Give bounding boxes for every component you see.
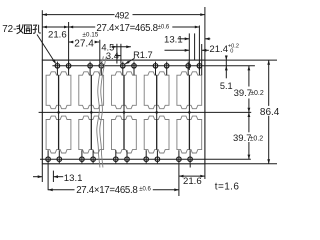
svg-text:27.4×17=465.8: 27.4×17=465.8 [76, 185, 137, 196]
oblong hole top row group 4.2 [164, 64, 169, 69]
dim 492 extension line right [204, 7, 206, 60]
break line 1 [97, 56, 104, 167]
cutout pair 2 top row [79, 72, 104, 109]
svg-text:21.6: 21.6 [183, 176, 202, 187]
oblong hole bottom row group 4.2 [155, 157, 160, 162]
extension line first hole pair [68, 22, 70, 70]
cutout pair 5 bottom row divider line [188, 120, 190, 150]
dim 5.1 [225, 55, 227, 78]
oblong hole top row group 4.1 [153, 64, 158, 69]
svg-text:72-: 72- [2, 24, 16, 35]
oblong hole bottom row group 5.2 [188, 157, 193, 162]
divider continuation group 3 [123, 105, 125, 119]
cutout pair 3 top row divider line [123, 75, 125, 105]
dim 21.6 bottom [179, 175, 205, 177]
cutout pair 3 bottom row divider line [123, 120, 125, 150]
dim 39.7 upper [248, 66, 250, 87]
extension line cutout right edge [201, 44, 203, 75]
panel left edge extension down [41, 164, 43, 182]
dim 492 extension line left [41, 10, 43, 60]
dim 21.6 top [42, 26, 68, 28]
stub extension hole 36 [189, 163, 191, 167]
bottom hole row centerline [40, 158, 251, 160]
svg-text:21.4: 21.4 [209, 44, 228, 55]
panel outline (mounting plate) [42, 60, 205, 164]
bottom edge extension to the right [205, 163, 277, 165]
extension line hole 17 [188, 33, 190, 70]
dim 492 [42, 14, 114, 16]
divider continuation group 5 [188, 105, 190, 119]
top hole row centerline [52, 65, 255, 67]
cutout pair 4 top row divider line [156, 75, 158, 105]
middle hole dot group 2 [90, 111, 93, 114]
divider continuation group 1 [58, 105, 60, 119]
oblong hole bottom row group 5.1 [177, 157, 182, 162]
svg-text:R1.7: R1.7 [133, 50, 153, 60]
svg-text:492: 492 [115, 11, 129, 21]
oblong hole bottom row group 2.1 [80, 157, 85, 162]
dim 39.7 lower [248, 112, 250, 132]
oblong hole top row group 5.2 [197, 64, 202, 69]
middle hole dot group 4 [155, 111, 158, 114]
oblong hole bottom row group 1.2 [57, 157, 62, 162]
oblong hole top row group 5.1 [186, 64, 191, 69]
svg-text:±0.2: ±0.2 [250, 90, 264, 97]
dim 27.4x17=465.8 top [69, 26, 96, 28]
cutout pair 4 bottom row divider line [156, 120, 158, 150]
cutout pair 1 bottom row divider line [58, 120, 60, 150]
cutout pair 1 top row divider line [58, 75, 60, 105]
top edge extension to the right [205, 59, 277, 61]
break line 2 [100, 56, 107, 167]
svg-text:27.4×17=465.8: 27.4×17=465.8 [96, 23, 157, 34]
oblong hole top row group 1.1 [55, 64, 60, 69]
svg-text:0: 0 [230, 49, 233, 55]
cutout pair 4 top row [144, 72, 169, 109]
panel right edge extension down [204, 164, 206, 179]
oblong hole bottom row group 3.2 [125, 157, 130, 162]
svg-text:13.1: 13.1 [64, 173, 83, 184]
cutout pair 2 bottom row [79, 116, 104, 153]
svg-text:27.4: 27.4 [74, 39, 94, 50]
svg-text:±0.15: ±0.15 [82, 32, 98, 39]
cutout pair 5 top row divider line [188, 75, 190, 105]
divider continuation group 2 [90, 105, 92, 119]
glyph yuan [25, 25, 32, 34]
extension line hole 18 [198, 26, 200, 71]
dim 13.1 bottom [33, 176, 42, 178]
svg-text:21.6: 21.6 [48, 30, 67, 41]
oblong hole bottom row group 2.2 [91, 157, 96, 162]
middle centerline [39, 111, 252, 113]
middle hole dot group 1 [57, 111, 60, 114]
dim 21.4 +0.2/0 [202, 49, 209, 51]
oblong hole width extension lines [116, 44, 118, 64]
svg-text:t=1.6: t=1.6 [215, 182, 240, 193]
svg-text:±0.2: ±0.2 [250, 135, 264, 142]
cutout pair 2 top row divider line [90, 75, 92, 105]
cutout pair 5 top row [177, 72, 202, 109]
extension line group 5 center [194, 33, 196, 60]
cutout pair 3 bottom row [112, 116, 137, 153]
middle hole dot group 5 [188, 111, 191, 114]
divider continuation group 4 [156, 105, 158, 119]
extension line third [52, 171, 54, 182]
svg-text:5.1: 5.1 [220, 81, 233, 91]
dim 21.4 left outside arrow tail [165, 49, 190, 51]
oblong hole bottom row group 4.1 [144, 157, 149, 162]
cutout pair 1 top row [46, 72, 71, 109]
first bottom hole extension down [47, 163, 49, 190]
svg-text:±0.6: ±0.6 [139, 187, 151, 193]
oblong hole top row group 2.2 [99, 64, 104, 69]
oblong hole bottom row group 1.1 [46, 157, 51, 162]
leader line to first hole [37, 35, 56, 64]
glyph chang [16, 24, 23, 34]
extension line for pitch dim [99, 40, 101, 64]
oblong hole top row group 1.2 [66, 64, 71, 69]
svg-text:13.1: 13.1 [164, 34, 183, 45]
oblong hole top row group 3.2 [132, 64, 137, 69]
dim 27.4 pitch [69, 41, 74, 43]
middle hole dot group 3 [123, 111, 126, 114]
oblong hole top row group 2.1 [88, 64, 93, 69]
svg-text:86.4: 86.4 [260, 107, 280, 118]
cutout pair 5 bottom row [177, 116, 202, 153]
dim 86.4 [268, 60, 270, 106]
svg-text:±0.6: ±0.6 [158, 25, 170, 31]
extension line last-unit bottom hole [178, 163, 180, 196]
oblong hole top row group 3.1 [121, 64, 126, 69]
cutout pair 2 bottom row divider line [90, 120, 92, 150]
oblong hole bottom row group 3.1 [114, 157, 119, 162]
cutout pair 4 bottom row [144, 116, 169, 153]
glyph kong [33, 25, 41, 34]
cutout pair 3 top row [112, 72, 137, 109]
cutout pair 1 bottom row [46, 116, 71, 153]
dim 27.4x17=465.8 bottom [48, 189, 74, 191]
